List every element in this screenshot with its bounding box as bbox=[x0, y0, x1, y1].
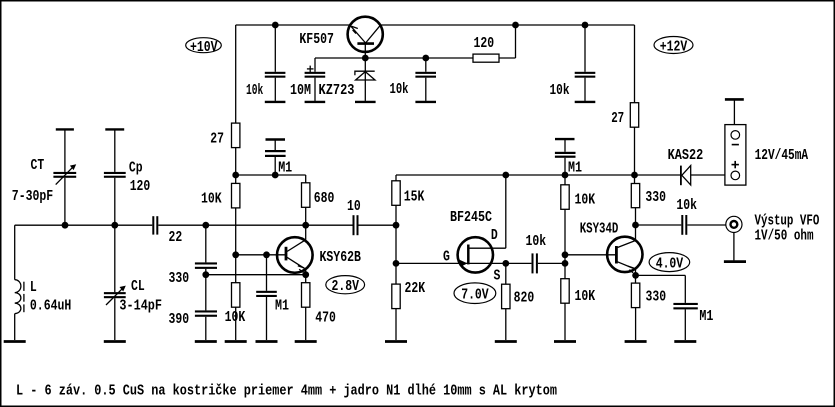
node dot gate row end bbox=[562, 260, 569, 267]
wire top rail right of KF507 bbox=[380, 24, 634, 26]
connector output jack bbox=[724, 213, 819, 262]
oval +10V bbox=[186, 38, 222, 56]
capacitor 330 bbox=[169, 225, 218, 310]
svg-text:10k: 10k bbox=[246, 82, 263, 99]
svg-text:+12V: +12V bbox=[660, 39, 688, 56]
transistor KSY34D bbox=[565, 221, 643, 283]
capacitor M1 (far right) bbox=[673, 275, 713, 341]
resistor 10K (upper right column) bbox=[561, 175, 595, 209]
resistor 15K bbox=[392, 175, 425, 206]
node dot KSY34D emitter bbox=[632, 272, 639, 279]
svg-text:2.8V: 2.8V bbox=[332, 278, 360, 295]
svg-text:L - 6 záv. 0.5 CuS na kostričk: L - 6 záv. 0.5 CuS na kostričke priemer … bbox=[16, 383, 557, 400]
resistor 27 (left) bbox=[210, 123, 240, 148]
svg-text:BF245C: BF245C bbox=[450, 209, 492, 226]
node dot KSY62B emitter bbox=[302, 271, 309, 278]
svg-text:7-30pF: 7-30pF bbox=[12, 188, 53, 205]
capacitor M1 (right, above 10K) bbox=[555, 139, 582, 177]
capacitor 10 (series) bbox=[347, 198, 361, 235]
wire 22K to ground bbox=[395, 309, 397, 340]
node dot 15K/signal bbox=[393, 222, 400, 229]
svg-text:3-14pF: 3-14pF bbox=[119, 298, 162, 315]
wire output row bbox=[636, 224, 682, 226]
node dot KSY34D base bbox=[562, 251, 569, 258]
node dot 330/signal bbox=[202, 222, 209, 229]
svg-text:D: D bbox=[491, 227, 498, 244]
svg-text:1V/50 ohm: 1V/50 ohm bbox=[755, 228, 814, 245]
wire base row KSY62B bbox=[236, 254, 286, 256]
svg-text:10: 10 bbox=[347, 198, 361, 215]
svg-text:22: 22 bbox=[169, 229, 183, 246]
capacitor 10k (second) bbox=[390, 58, 437, 102]
wire signal row mid bbox=[158, 224, 352, 226]
svg-text:S: S bbox=[494, 268, 501, 285]
capacitor 390 bbox=[169, 310, 218, 341]
wire supply row right bbox=[396, 174, 635, 176]
resistor 330 (upper right) bbox=[631, 184, 666, 208]
capacitor CT 7-30pF (trimmer) bbox=[12, 129, 76, 225]
svg-text:G: G bbox=[443, 249, 450, 266]
svg-text:4.0V: 4.0V bbox=[656, 256, 684, 273]
svg-text:680: 680 bbox=[314, 190, 335, 207]
zener diode KZ723 bbox=[319, 58, 376, 102]
wire feedback row bbox=[206, 274, 306, 276]
svg-text:10K: 10K bbox=[201, 191, 222, 208]
wire emitter to M1 right bbox=[636, 274, 686, 276]
node dot M1/supply bbox=[562, 172, 569, 179]
resistor 10K (left lower) bbox=[225, 283, 246, 327]
node dot 10K/base bbox=[232, 251, 239, 258]
resistor 330 (lower right) bbox=[631, 283, 666, 308]
wire top rail left of KF507 bbox=[236, 24, 350, 26]
inductor L 0.64uH bbox=[4, 225, 72, 341]
svg-text:10K: 10K bbox=[575, 192, 596, 209]
wire signal row to 15K bbox=[359, 224, 397, 226]
diode KAS22 bbox=[635, 147, 732, 185]
svg-text:M1: M1 bbox=[275, 298, 289, 315]
wire 820 to ground bbox=[505, 309, 507, 340]
resistor 120 bbox=[473, 35, 499, 62]
node dot Cp/signal bbox=[111, 222, 118, 229]
node dot CT/signal bbox=[62, 222, 69, 229]
node dot 330/390 bbox=[202, 271, 209, 278]
capacitor M1 (middle) bbox=[256, 255, 290, 342]
svg-text:390: 390 bbox=[169, 311, 190, 328]
svg-text:330: 330 bbox=[646, 289, 667, 306]
node dot M1 mid/base bbox=[263, 251, 270, 258]
node dot KF507 base bbox=[362, 55, 369, 62]
node dot drain/supply bbox=[502, 172, 509, 179]
wire supply row left bbox=[236, 174, 306, 176]
transistor KF507 bbox=[299, 17, 382, 58]
svg-text:M1: M1 bbox=[278, 160, 292, 177]
svg-text:0.64uH: 0.64uH bbox=[30, 298, 71, 315]
node dot 27R/supply bbox=[631, 172, 638, 179]
svg-text:27: 27 bbox=[611, 110, 624, 127]
svg-text:15K: 15K bbox=[404, 189, 425, 206]
wire 10K to base node bbox=[564, 209, 566, 278]
resistor 820 bbox=[502, 263, 535, 308]
wire gate row bbox=[396, 262, 531, 264]
transistor BF245C (JFET) bbox=[443, 175, 506, 285]
svg-text:330: 330 bbox=[645, 189, 666, 206]
capacitor 10k (first) bbox=[246, 25, 285, 102]
wire to output jack bbox=[687, 224, 726, 226]
wire signal row left bbox=[15, 224, 153, 226]
capacitor M1 (left, above 10K) bbox=[265, 140, 292, 177]
svg-text:+10V: +10V bbox=[190, 39, 218, 56]
svg-text:22K: 22K bbox=[405, 280, 426, 297]
svg-text:10K: 10K bbox=[225, 309, 246, 326]
svg-text:KF507: KF507 bbox=[299, 31, 334, 48]
svg-text:10M: 10M bbox=[290, 82, 311, 99]
svg-text:820: 820 bbox=[514, 290, 535, 307]
node dot 27L/supply bbox=[232, 172, 239, 179]
wire 10K to ground bbox=[564, 303, 566, 340]
node dot 10k/row58 bbox=[422, 55, 429, 62]
capacitor 22 (series) bbox=[153, 216, 182, 246]
resistor 470 bbox=[295, 275, 336, 342]
svg-text:7.0V: 7.0V bbox=[461, 287, 489, 304]
svg-text:KAS22: KAS22 bbox=[668, 147, 704, 164]
capacitor 10k (third) bbox=[550, 25, 596, 102]
ground bar under 10K right bbox=[554, 340, 576, 343]
wire +12V rail vertical bbox=[634, 25, 636, 103]
wire 330 to ground bbox=[635, 308, 637, 340]
svg-text:M1: M1 bbox=[699, 308, 713, 325]
wire 120 up to rail bbox=[515, 25, 517, 58]
svg-text:Cp: Cp bbox=[129, 160, 143, 177]
oval +12V bbox=[654, 37, 693, 56]
svg-text:10k: 10k bbox=[676, 197, 697, 214]
svg-text:10K: 10K bbox=[575, 288, 596, 305]
node dot gate/22K bbox=[393, 260, 400, 267]
oval 7.0V bbox=[454, 283, 496, 304]
node dot M1/supply left bbox=[272, 172, 279, 179]
node dot top rail / 10k bbox=[272, 22, 279, 29]
svg-text:CT: CT bbox=[31, 157, 45, 174]
resistor 10K (left upper) bbox=[201, 183, 240, 208]
resistor 22K bbox=[392, 280, 425, 309]
svg-text:L: L bbox=[30, 279, 37, 296]
wire 27 to supply row bbox=[235, 148, 237, 184]
svg-text:12V/45mA: 12V/45mA bbox=[755, 147, 809, 164]
svg-text:CL: CL bbox=[131, 278, 145, 295]
capacitor 10k (output series) bbox=[676, 197, 697, 235]
svg-text:10k: 10k bbox=[390, 81, 409, 98]
svg-text:470: 470 bbox=[315, 310, 336, 327]
svg-text:KSY34D: KSY34D bbox=[580, 221, 619, 238]
oval 2.8V bbox=[326, 276, 365, 296]
svg-text:10k: 10k bbox=[550, 82, 570, 99]
node dot 680/collector bbox=[302, 222, 309, 229]
wire 15K down to gate row bbox=[395, 205, 397, 263]
svg-text:120: 120 bbox=[474, 35, 495, 52]
wire 27R down to supply row bbox=[634, 127, 636, 183]
svg-text:330: 330 bbox=[169, 270, 190, 287]
wire 10K col to base row bbox=[235, 208, 237, 283]
svg-text:120: 120 bbox=[130, 178, 151, 195]
node dot rail/10k third bbox=[582, 22, 589, 29]
wire 10K to ground bbox=[235, 307, 237, 340]
svg-text:KSY62B: KSY62B bbox=[320, 249, 361, 266]
wire +10V rail vertical bbox=[235, 25, 237, 123]
node dot source/820 bbox=[502, 260, 509, 267]
ground bar under 22K bbox=[385, 340, 407, 343]
resistor 27 (right) bbox=[611, 103, 639, 128]
svg-text:27: 27 bbox=[210, 131, 224, 148]
transistor KSY62B bbox=[277, 225, 361, 275]
oval 4.0V bbox=[649, 253, 690, 273]
capacitor 10M electrolytic bbox=[290, 58, 325, 102]
wire regulator row y58 bbox=[315, 57, 473, 59]
node dot output bbox=[632, 222, 639, 229]
node dot rail/120 bbox=[512, 22, 519, 29]
capacitor 10k (gate series) bbox=[526, 233, 547, 273]
ground bar under 10K left bbox=[225, 340, 247, 343]
capacitor CL 3-14pF (trimmer) bbox=[104, 225, 162, 341]
wire gate node down to 22K bbox=[395, 263, 397, 284]
svg-text:KZ723: KZ723 bbox=[319, 82, 355, 99]
resistor 680 bbox=[302, 175, 335, 225]
capacitor Cp 120 bbox=[104, 129, 150, 225]
svg-text:10k: 10k bbox=[526, 233, 547, 250]
svg-text:M1: M1 bbox=[568, 160, 582, 177]
wire 330 to collector node bbox=[635, 208, 637, 241]
ground bar under 820 bbox=[495, 340, 517, 343]
resistor 10K (lower right column) bbox=[561, 279, 595, 306]
ground bar under 330 bbox=[625, 340, 647, 343]
connector 12V/45mA bbox=[725, 99, 808, 185]
